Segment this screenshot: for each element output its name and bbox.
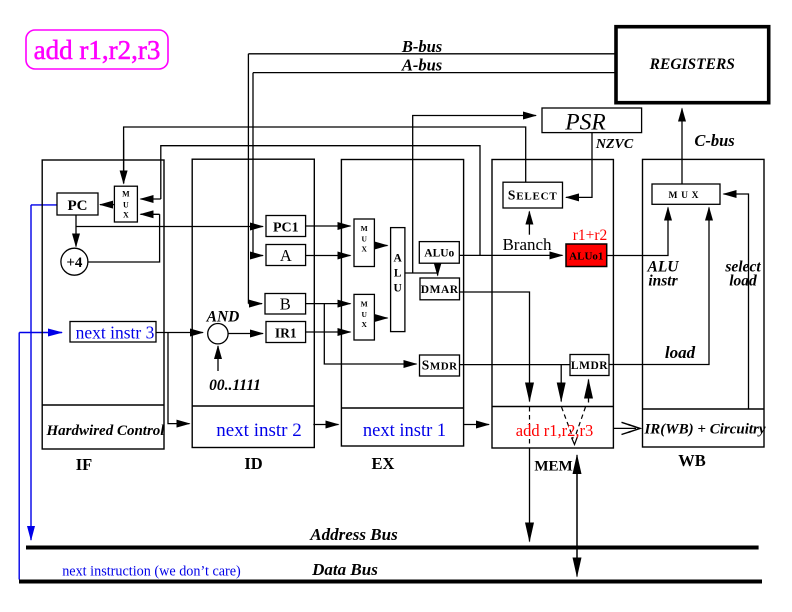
- svg-text:+4: +4: [66, 255, 83, 271]
- svg-text:U: U: [361, 310, 367, 319]
- svg-text:EX: EX: [372, 454, 395, 473]
- svg-text:X: X: [361, 320, 367, 329]
- svg-text:Hardwired Control: Hardwired Control: [46, 423, 166, 439]
- svg-text:C-bus: C-bus: [694, 131, 734, 150]
- svg-text:add r1,r2,r3: add r1,r2,r3: [516, 421, 593, 440]
- svg-text:U: U: [361, 235, 367, 244]
- svg-text:Address Bus: Address Bus: [309, 525, 398, 544]
- svg-text:next instr 3: next instr 3: [76, 323, 155, 343]
- svg-text:A: A: [394, 253, 403, 265]
- svg-text:SMDR: SMDR: [422, 358, 458, 373]
- svg-text:PSR: PSR: [564, 110, 605, 136]
- svg-text:00..1111: 00..1111: [209, 377, 261, 394]
- svg-text:IR(WB) + Circuitry: IR(WB) + Circuitry: [643, 422, 765, 438]
- svg-text:ALUo1: ALUo1: [569, 251, 603, 263]
- svg-text:add r1,r2,r3: add r1,r2,r3: [34, 35, 161, 65]
- svg-text:SELECT: SELECT: [508, 188, 558, 203]
- svg-text:IF: IF: [76, 455, 93, 474]
- svg-text:A: A: [280, 246, 292, 265]
- svg-text:next instr 1: next instr 1: [363, 421, 446, 441]
- svg-text:L: L: [394, 268, 402, 280]
- svg-text:B: B: [280, 295, 291, 314]
- svg-text:AND: AND: [206, 309, 240, 326]
- svg-text:MEM: MEM: [534, 459, 572, 475]
- svg-text:PC1: PC1: [273, 221, 299, 236]
- svg-text:X: X: [123, 211, 129, 220]
- svg-text:M: M: [122, 190, 130, 199]
- svg-text:A-bus: A-bus: [401, 56, 442, 75]
- svg-text:NZVC: NZVC: [595, 137, 634, 152]
- svg-text:IR1: IR1: [275, 326, 297, 341]
- svg-text:DMAR: DMAR: [421, 284, 459, 296]
- svg-text:U: U: [123, 201, 129, 210]
- svg-text:Branch: Branch: [502, 235, 552, 254]
- svg-text:M: M: [361, 300, 368, 309]
- svg-text:MUX: MUX: [669, 191, 699, 201]
- svg-text:WB: WB: [678, 451, 706, 470]
- svg-text:load: load: [729, 273, 757, 290]
- svg-text:PC: PC: [68, 198, 88, 214]
- svg-text:ID: ID: [244, 454, 262, 473]
- svg-text:REGISTERS: REGISTERS: [649, 56, 735, 73]
- svg-text:B-bus: B-bus: [401, 37, 442, 56]
- svg-text:load: load: [665, 343, 696, 362]
- svg-text:next instr 2: next instr 2: [216, 420, 302, 441]
- svg-text:Data Bus: Data Bus: [311, 560, 378, 579]
- svg-text:ALUo: ALUo: [424, 248, 454, 260]
- svg-text:X: X: [361, 245, 367, 254]
- svg-text:M: M: [361, 224, 368, 233]
- svg-text:instr: instr: [648, 273, 678, 290]
- svg-text:r1+r2: r1+r2: [573, 227, 608, 244]
- svg-text:next instruction (we don’t car: next instruction (we don’t care): [62, 564, 241, 580]
- svg-text:LMDR: LMDR: [571, 360, 608, 372]
- svg-text:U: U: [394, 283, 403, 295]
